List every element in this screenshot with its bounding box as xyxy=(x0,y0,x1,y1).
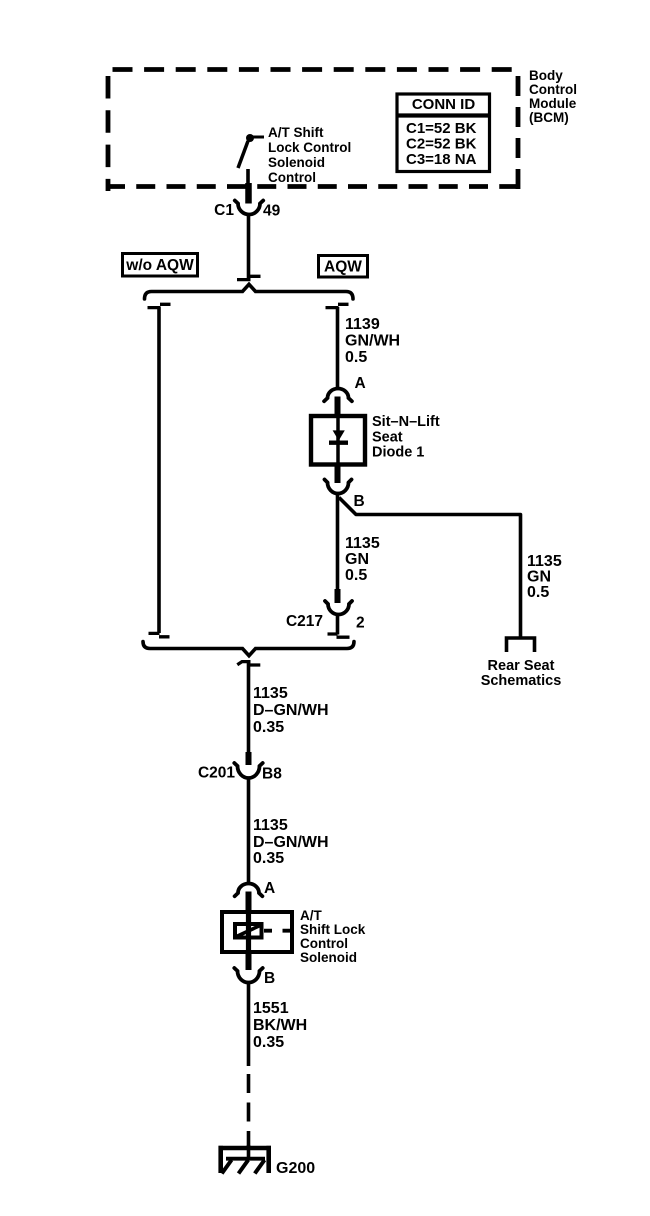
svg-text:A: A xyxy=(264,880,275,897)
svg-text:C1: C1 xyxy=(214,202,234,219)
wire C201 to A xyxy=(247,778,251,885)
label wire 1139 GN/WH 0.5 xyxy=(345,316,400,366)
svg-text:Seat: Seat xyxy=(372,430,403,446)
rear seat schematics label xyxy=(481,658,562,689)
svg-text:B8: B8 xyxy=(262,766,282,783)
svg-text:1135: 1135 xyxy=(527,553,562,570)
svg-text:0.5: 0.5 xyxy=(527,584,549,601)
label wire 1135 GN 0.5 (left) xyxy=(345,535,380,584)
svg-text:CONN ID: CONN ID xyxy=(412,96,476,113)
svg-text:C217: C217 xyxy=(286,613,323,630)
svg-text:Module: Module xyxy=(529,96,577,111)
solenoid label xyxy=(300,908,366,965)
svg-text:1135: 1135 xyxy=(253,685,288,702)
svg-text:A/T: A/T xyxy=(300,908,323,923)
svg-text:1135: 1135 xyxy=(253,817,288,834)
ground G200 xyxy=(219,1145,316,1177)
A/T Shift Lock Control Solenoid box xyxy=(222,912,292,952)
svg-text:1139: 1139 xyxy=(345,316,380,333)
svg-text:B: B xyxy=(264,970,275,987)
svg-text:A/T Shift: A/T Shift xyxy=(268,125,324,140)
svg-text:BK/WH: BK/WH xyxy=(253,1017,307,1034)
svg-text:2: 2 xyxy=(356,615,365,632)
label wire 1551 BK/WH 0.35 xyxy=(253,1000,307,1051)
branch wire to rear seat schematics xyxy=(339,498,521,638)
svg-text:(BCM): (BCM) xyxy=(529,110,569,125)
connector B (diode) xyxy=(325,465,365,510)
svg-text:0.5: 0.5 xyxy=(345,567,367,584)
svg-text:A: A xyxy=(355,375,366,392)
wire 1551 solid part xyxy=(247,983,251,1066)
connector A (diode) xyxy=(324,375,366,415)
Sit-N-Lift Seat Diode 1 box xyxy=(311,416,365,465)
svg-text:Control: Control xyxy=(529,82,577,97)
left branch wire (w/o AQW) xyxy=(148,304,171,637)
svg-text:1551: 1551 xyxy=(253,1000,289,1017)
BCM module dashed box xyxy=(106,70,518,192)
svg-text:0.35: 0.35 xyxy=(253,719,284,736)
rear seat schematics off-page connector xyxy=(507,638,535,652)
svg-text:C1=52 BK: C1=52 BK xyxy=(406,120,477,137)
switch: A/T Shift Lock Control Solenoid Control driver xyxy=(238,134,264,188)
wire end hook at split xyxy=(237,276,261,279)
svg-text:D–GN/WH: D–GN/WH xyxy=(253,702,329,719)
svg-text:GN: GN xyxy=(527,569,551,586)
svg-text:49: 49 xyxy=(263,203,281,220)
diode D1 symbol xyxy=(329,414,348,466)
svg-text:0.35: 0.35 xyxy=(253,850,284,867)
svg-text:Body: Body xyxy=(529,68,563,83)
svg-text:GN: GN xyxy=(345,551,369,568)
wire C1 to split xyxy=(247,214,251,278)
label wire 1135 D-GN/WH 0.35 (upper) xyxy=(253,685,329,736)
w/o AQW option box xyxy=(123,254,198,277)
BCM label xyxy=(529,68,577,125)
svg-text:Control: Control xyxy=(268,170,316,185)
wire to C201 xyxy=(247,663,251,753)
svg-text:Sit–N–Lift: Sit–N–Lift xyxy=(372,414,440,430)
svg-text:1135: 1135 xyxy=(345,535,380,552)
connector C1 pin 49 xyxy=(214,183,280,220)
label wire 1135 GN 0.5 (right) xyxy=(527,553,562,601)
svg-text:Shift Lock: Shift Lock xyxy=(300,922,366,937)
connector A (solenoid) xyxy=(235,880,276,911)
svg-text:B: B xyxy=(354,493,365,510)
solenoid coil symbol xyxy=(235,910,292,954)
svg-text:0.35: 0.35 xyxy=(253,1034,284,1051)
svg-text:AQW: AQW xyxy=(324,259,362,276)
wire B to C217 xyxy=(336,494,340,590)
svg-text:Diode 1: Diode 1 xyxy=(372,445,424,461)
svg-text:C2=52 BK: C2=52 BK xyxy=(406,136,477,153)
svg-text:0.5: 0.5 xyxy=(345,349,367,366)
wire end hook below merge xyxy=(237,662,260,665)
switch label xyxy=(268,125,351,185)
svg-text:w/o AQW: w/o AQW xyxy=(125,257,194,274)
svg-text:G200: G200 xyxy=(276,1160,315,1177)
svg-text:Rear Seat: Rear Seat xyxy=(488,658,555,674)
svg-text:Control: Control xyxy=(300,936,348,951)
svg-text:Schematics: Schematics xyxy=(481,673,562,689)
right branch wire (AQW) top hook xyxy=(326,304,349,389)
diode label xyxy=(372,414,440,461)
svg-text:Solenoid: Solenoid xyxy=(300,950,357,965)
label wire 1135 D-GN/WH 0.35 (lower) xyxy=(253,817,329,867)
AQW option box xyxy=(319,256,368,278)
connector B (solenoid) xyxy=(234,953,275,987)
svg-text:C3=18 NA: C3=18 NA xyxy=(406,151,477,168)
CONN ID table xyxy=(396,94,491,172)
dashed wire to ground xyxy=(247,1074,251,1148)
svg-text:Solenoid: Solenoid xyxy=(268,155,325,170)
connector C201 pin B8 xyxy=(198,752,282,783)
merge brace (bottom) xyxy=(143,642,354,656)
svg-text:Lock Control: Lock Control xyxy=(268,140,351,155)
option branch brace (top) xyxy=(145,284,354,299)
svg-text:GN/WH: GN/WH xyxy=(345,333,400,350)
svg-text:C201: C201 xyxy=(198,765,235,782)
connector C217 pin 2 xyxy=(286,589,365,637)
svg-text:D–GN/WH: D–GN/WH xyxy=(253,834,329,851)
